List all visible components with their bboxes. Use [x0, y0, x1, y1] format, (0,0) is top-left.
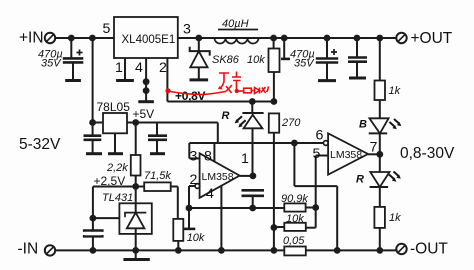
svg-text:+IN: +IN	[19, 30, 44, 47]
svg-text:6: 6	[316, 127, 324, 143]
svg-text:8: 8	[204, 149, 212, 165]
svg-text:0,05: 0,05	[283, 235, 305, 247]
svg-text:R: R	[356, 174, 364, 186]
svg-text:3: 3	[183, 22, 191, 38]
svg-text:5: 5	[313, 146, 321, 162]
svg-text:35V: 35V	[294, 58, 315, 70]
svg-text:B: B	[359, 119, 367, 131]
svg-text:+OUT: +OUT	[411, 30, 453, 47]
svg-text:4: 4	[206, 186, 214, 202]
svg-text:1: 1	[115, 60, 123, 76]
svg-text:4: 4	[135, 60, 143, 76]
svg-text:7: 7	[370, 140, 378, 156]
svg-text:2: 2	[159, 60, 167, 76]
svg-text:71,5k: 71,5k	[144, 170, 171, 182]
svg-text:1k: 1k	[389, 212, 401, 224]
svg-text:LM358: LM358	[202, 171, 234, 183]
svg-text:0,8-30V: 0,8-30V	[400, 145, 455, 162]
svg-text:10k: 10k	[247, 54, 265, 66]
svg-text:10k: 10k	[187, 232, 205, 244]
svg-text:270: 270	[281, 117, 301, 129]
svg-text:5-32V: 5-32V	[19, 136, 61, 153]
svg-text:-OUT: -OUT	[410, 241, 448, 258]
svg-text:R: R	[222, 110, 230, 122]
svg-text:1k: 1k	[389, 85, 401, 97]
svg-text:35V: 35V	[41, 58, 62, 70]
svg-text:78L05: 78L05	[97, 100, 131, 114]
svg-text:2,2k: 2,2k	[106, 162, 128, 174]
svg-text:LM358: LM358	[330, 149, 362, 161]
svg-text:3: 3	[190, 149, 198, 165]
svg-text:XL4005E1: XL4005E1	[122, 34, 176, 46]
svg-text:+5V: +5V	[133, 107, 155, 121]
svg-text:5: 5	[103, 21, 111, 37]
svg-text:+0,8V: +0,8V	[175, 89, 205, 103]
svg-text:-IN: -IN	[18, 241, 39, 258]
svg-text:40µH: 40µH	[222, 18, 249, 30]
svg-text:SK86: SK86	[212, 54, 240, 66]
svg-text:TL431: TL431	[102, 192, 133, 204]
svg-text:1: 1	[241, 151, 249, 167]
